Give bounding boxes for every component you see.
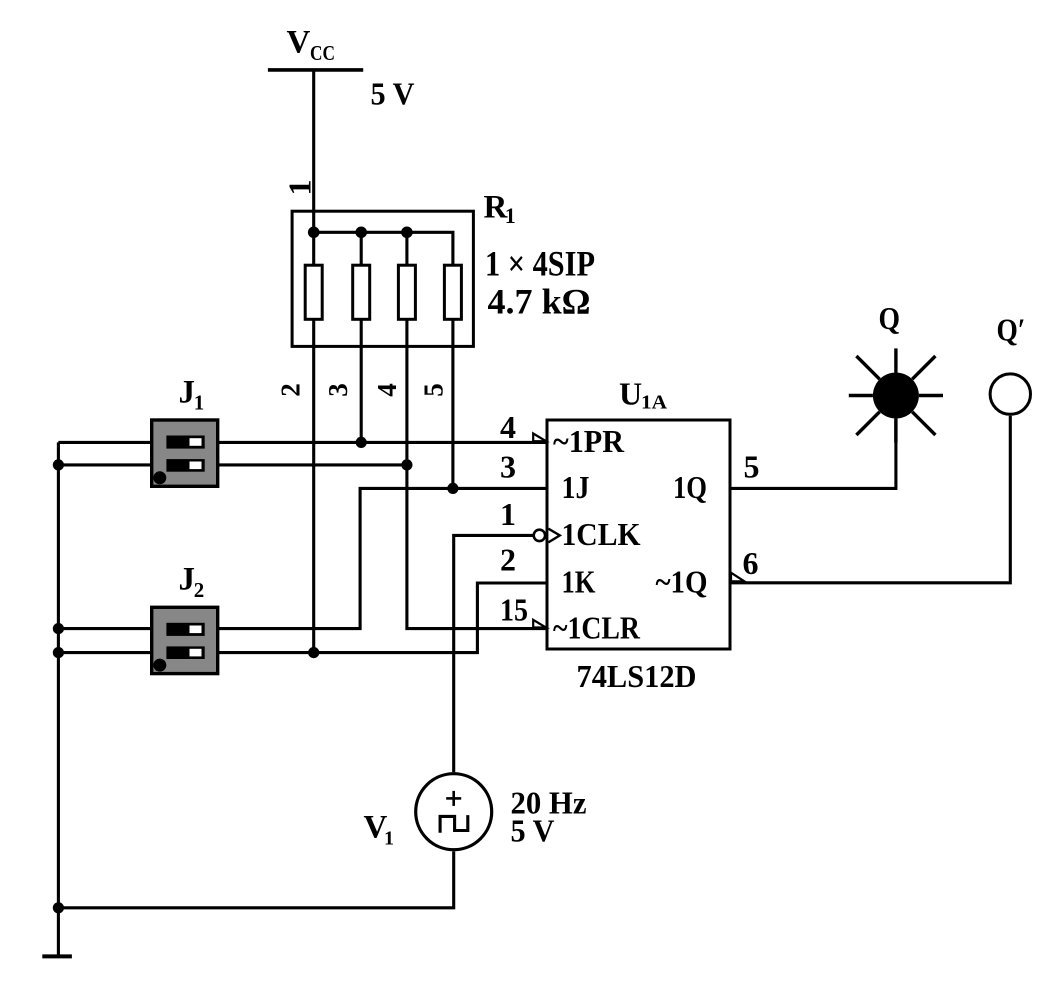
svg-text:4.7 kΩ: 4.7 kΩ xyxy=(488,282,591,322)
svg-text:~1PR: ~1PR xyxy=(553,423,625,459)
svg-text:~1CLR: ~1CLR xyxy=(553,609,641,645)
svg-text:1J: 1J xyxy=(562,469,590,505)
wire 1J row: J2 top pin up and right to U1A 1J xyxy=(58,488,547,628)
svg-text:3: 3 xyxy=(500,449,516,485)
svg-text:CC: CC xyxy=(310,41,335,65)
resistor R1b body xyxy=(353,265,370,319)
wire R1 pin 5 down to 1J net xyxy=(451,319,454,488)
resistor pack R1 outline box xyxy=(292,211,473,346)
wire J1 bottom row to R1 pin4 net xyxy=(58,463,407,466)
switch J1 body xyxy=(152,420,218,486)
svg-text:1: 1 xyxy=(384,827,394,849)
label R1 xyxy=(484,189,516,228)
junction dot rail/bottom wire xyxy=(53,902,64,913)
active-low marker ~1PR xyxy=(533,434,546,442)
svg-text:1: 1 xyxy=(194,391,205,415)
clock edge triangle 1CLK xyxy=(548,529,559,543)
svg-text:5 V: 5 V xyxy=(511,813,555,849)
ground symbol xyxy=(42,954,72,958)
wire 1CLK from V1 up then right to clock bubble xyxy=(454,535,534,772)
wire 1Q output to probe Q xyxy=(730,419,896,489)
label V1 xyxy=(364,810,395,850)
svg-text:2: 2 xyxy=(276,383,306,397)
active-low marker ~1CLR xyxy=(533,620,546,628)
svg-text:5 V: 5 V xyxy=(371,76,415,112)
junction dot R1 pin5 / 1J wire xyxy=(447,483,458,494)
switch J2 body xyxy=(152,607,218,673)
junction dot R1 pin3 / ~1PR wire xyxy=(356,437,367,448)
wire left ground rail xyxy=(57,442,60,956)
probe lamp Q (lit) xyxy=(849,348,943,442)
wire 1K row: J2 bottom pin right then up to U1A 1K xyxy=(58,583,547,653)
svg-text:Q′: Q′ xyxy=(997,311,1026,347)
resistor R1c body xyxy=(398,265,415,319)
wire ~1PR row: rail through J1 to U1A xyxy=(58,441,547,444)
svg-text:1 × 4SIP: 1 × 4SIP xyxy=(485,244,595,284)
svg-text:Q: Q xyxy=(879,300,901,336)
wire R1 resistor stubs xyxy=(314,232,407,265)
wire bottom: ground rail to V1 minus xyxy=(58,851,453,908)
probe Q' (off) xyxy=(990,374,1030,414)
junction dot rail/J2 bottom xyxy=(53,647,64,658)
svg-text:3: 3 xyxy=(323,383,353,397)
svg-text:J: J xyxy=(179,374,196,410)
wire R1 pin 3 down to ~1PR net xyxy=(360,319,363,442)
svg-text:4: 4 xyxy=(500,409,516,445)
junction dot rail/J1 bottom xyxy=(53,459,64,470)
clock bubble 1CLK xyxy=(534,530,545,541)
svg-text:1: 1 xyxy=(505,203,516,228)
source V1 circle xyxy=(416,774,492,850)
svg-text:5: 5 xyxy=(744,448,760,484)
svg-text:1K: 1K xyxy=(562,563,596,599)
junction dot J1 bottom / R1 pin4 net xyxy=(401,459,412,470)
power VCC symbol xyxy=(268,68,363,72)
wire ~1Q output to probe Q' xyxy=(730,416,1010,583)
svg-text:1CLK: 1CLK xyxy=(562,516,641,552)
svg-text:J: J xyxy=(179,562,196,598)
active-low marker ~1Q xyxy=(731,573,745,582)
svg-text:2: 2 xyxy=(500,542,516,578)
junction dot R1 pin2 / J2 bottom wire xyxy=(308,647,319,658)
svg-text:V: V xyxy=(287,25,311,61)
svg-text:15: 15 xyxy=(500,592,528,628)
svg-text:U: U xyxy=(619,375,642,411)
label J1 xyxy=(179,374,205,414)
wire R1 pin 2 down to J2 bottom net xyxy=(312,319,315,652)
node VCC label xyxy=(287,25,336,65)
svg-text:2: 2 xyxy=(194,578,205,602)
label U1A xyxy=(619,375,668,413)
svg-text:4: 4 xyxy=(372,383,402,397)
svg-text:1Q: 1Q xyxy=(673,469,707,505)
resistor R1a body xyxy=(305,265,322,319)
wire R1 internal top bus xyxy=(314,232,453,265)
svg-text:74LS12D: 74LS12D xyxy=(577,658,697,694)
svg-text:5: 5 xyxy=(419,383,449,397)
IC U1A box (74LS12D JK flip-flop) xyxy=(547,420,730,649)
resistor R1d body xyxy=(444,265,461,319)
svg-text:1: 1 xyxy=(282,180,318,196)
wire R1 pin 4 down then right to ~1CLR pin xyxy=(407,319,547,628)
V1 plus sign xyxy=(446,791,461,806)
wire VCC stem to R1 pin 1 xyxy=(312,70,315,232)
svg-text:~1Q: ~1Q xyxy=(656,563,708,599)
label J2 xyxy=(179,562,205,602)
svg-text:1A: 1A xyxy=(641,392,668,414)
V1 square-wave glyph xyxy=(440,815,468,833)
junction dots on R1 bus xyxy=(308,227,413,239)
svg-text:6: 6 xyxy=(743,545,759,581)
svg-text:1: 1 xyxy=(500,496,516,532)
junction dot rail/J2 top xyxy=(53,623,64,634)
